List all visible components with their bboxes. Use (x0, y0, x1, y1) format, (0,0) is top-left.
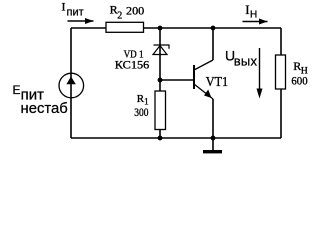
svg-text:2: 2 (117, 11, 122, 22)
wire right lower (280, 89, 282, 138)
svg-text:нестаб: нестаб (21, 100, 68, 117)
wire ground stub (212, 138, 214, 150)
wire below R1 (159, 130, 161, 139)
current arrow In (243, 21, 268, 23)
svg-text:300: 300 (134, 105, 148, 119)
junction dot R2-VD1 (158, 26, 163, 31)
svg-text:200: 200 (126, 3, 144, 17)
svg-text:VT1: VT1 (206, 75, 228, 90)
wire left (70, 28, 72, 138)
wire top right segment (144, 27, 282, 29)
svg-text:Н: Н (250, 9, 257, 20)
junction dot R1-bottom (158, 136, 163, 141)
transistor VT1 emitter arrowhead (204, 90, 212, 99)
wire emitter vertical (212, 99, 214, 138)
transistor VT1 emitter (194, 84, 213, 99)
current source E circle (59, 73, 84, 98)
wire top left segment (71, 27, 106, 29)
wire right upper (280, 28, 282, 55)
wire collector vertical (212, 28, 214, 60)
wire base (160, 79, 194, 81)
svg-text:пит: пит (67, 7, 84, 19)
wire zener column (159, 28, 161, 91)
transistor VT1 bar (193, 65, 195, 89)
resistor R2 (106, 22, 144, 32)
resistor R1 (155, 91, 166, 130)
svg-text:I: I (62, 0, 66, 14)
ground (203, 150, 222, 153)
junction dot collector-top (211, 26, 216, 31)
wire bottom (71, 137, 281, 139)
current source arrow (66, 77, 75, 85)
svg-text:E: E (13, 83, 21, 97)
svg-text:вых: вых (234, 54, 258, 69)
svg-text:КС156: КС156 (115, 59, 150, 71)
transistor VT1 collector (194, 60, 213, 70)
current arrow Ipit (68, 20, 94, 22)
svg-text:I: I (245, 2, 249, 17)
resistor RH (276, 55, 286, 89)
zener VD1 cathode bar (154, 45, 170, 49)
junction dot emitter-bottom (211, 136, 216, 141)
svg-text:600: 600 (291, 73, 307, 87)
zener VD1 triangle (153, 46, 167, 55)
arrow Uvyh (259, 48, 261, 90)
junction dot base node (158, 78, 163, 83)
